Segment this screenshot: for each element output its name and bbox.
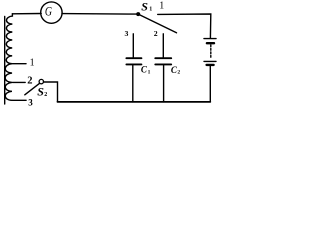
capacitor C1 top plate (126, 57, 141, 59)
wire: galvanometer to switch S1 pivot (62, 13, 136, 16)
wire: C1 lower lead (132, 65, 134, 102)
svg-text:1: 1 (149, 7, 152, 13)
svg-text:S: S (37, 84, 44, 98)
switch S1 blade (138, 14, 176, 33)
battery cell 2 short plate (207, 64, 214, 66)
svg-text:2: 2 (27, 75, 32, 86)
battery ellipsis dotted line (210, 45, 212, 58)
tap wire 2 (12, 81, 25, 83)
galvanometer G circle (41, 2, 62, 23)
tap wire 3 (coil bottom end) (12, 99, 26, 101)
svg-text:1: 1 (148, 70, 151, 76)
capacitor C2 bottom plate (155, 63, 171, 65)
node: S2 pivot circle (open contact) (39, 79, 43, 83)
wire: contact 1 to top-right corner, down to battery (158, 14, 211, 38)
svg-text:1: 1 (30, 58, 35, 69)
svg-text:1: 1 (159, 1, 164, 12)
battery cell 1 short plate (207, 42, 214, 44)
svg-text:3: 3 (125, 29, 129, 38)
svg-text:S: S (141, 0, 148, 13)
contact stub 2 (to C2) (162, 34, 164, 58)
wire: bottom rail (58, 101, 211, 103)
capacitor C1 bottom plate (126, 63, 141, 65)
wire: C2 lower lead (163, 65, 165, 102)
svg-text:G: G (45, 6, 52, 19)
wire: top-left from coil to galvanometer (12, 13, 41, 15)
battery cell 2 long plate (204, 60, 216, 62)
svg-text:3: 3 (28, 97, 33, 107)
iron core line (4, 17, 6, 105)
tap wire 1 (12, 63, 26, 65)
wire: S2 output going right then down to bottom rail (44, 82, 58, 102)
contact stub 3 (to C1) (132, 34, 134, 58)
svg-text:2: 2 (154, 29, 158, 38)
node: S1 pivot junction dot (136, 12, 140, 16)
wire: battery negative lead down to bottom rail (209, 66, 211, 102)
switch S2 blade (25, 83, 40, 95)
capacitor C2 top plate (155, 57, 171, 59)
inductor L (tapped coil winding) (5, 14, 12, 100)
svg-text:2: 2 (44, 92, 47, 98)
battery cell 1 long plate (204, 38, 216, 40)
svg-text:2: 2 (177, 70, 180, 76)
